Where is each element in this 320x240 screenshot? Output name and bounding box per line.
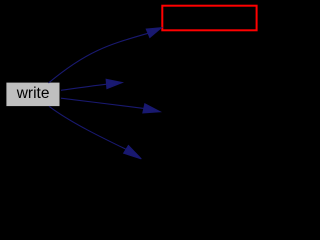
edge write -> truncated node (curved up) — [49, 28, 162, 83]
edge write -> hidden node 2 — [61, 79, 122, 90]
edge write -> hidden node 4 (curved down) — [49, 106, 141, 159]
node write (current function, grey) — [6, 82, 60, 107]
edge write -> hidden node 3 — [61, 98, 160, 113]
svg-text:write: write — [16, 85, 50, 102]
node: truncated function (red outline box) — [162, 6, 256, 31]
